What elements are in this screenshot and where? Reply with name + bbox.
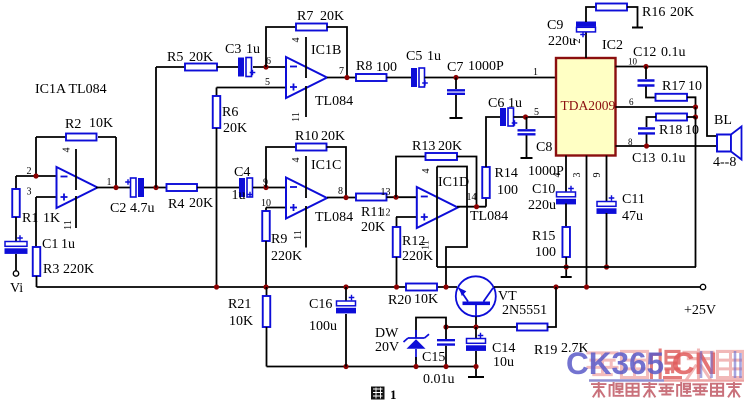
resistor R14	[482, 167, 490, 198]
wire R21 bottom	[266, 327, 268, 367]
wire IC1C pin10 input	[266, 207, 286, 209]
zener diode DW	[404, 330, 430, 360]
wire IC1D output	[457, 206, 486, 208]
wire R21 top	[266, 287, 268, 296]
wire R15 bottom	[565, 257, 567, 276]
svg-text:10: 10	[261, 198, 271, 209]
resistor R4	[167, 184, 198, 191]
svg-text:TL084: TL084	[315, 210, 353, 225]
junction R15 node	[564, 264, 569, 269]
wire C16 bottom	[345, 314, 347, 367]
svg-text:1u: 1u	[61, 237, 75, 252]
junction IC1C output node	[343, 195, 348, 200]
wire C2 to R4	[144, 187, 167, 189]
junction C16 ground	[343, 364, 348, 369]
wire R13 feedback right	[457, 157, 477, 207]
wire C15 top	[445, 327, 447, 339]
wire to R3	[35, 197, 37, 247]
svg-text:2: 2	[27, 166, 32, 177]
junction C15 ground	[443, 364, 448, 369]
op-amp U1 IC1C	[286, 178, 327, 219]
svg-text:IC1B: IC1B	[311, 43, 341, 58]
capacitor C1	[5, 242, 27, 247]
resistor R16	[596, 4, 627, 11]
svg-text:3: 3	[572, 173, 583, 178]
svg-text:20K: 20K	[189, 196, 213, 211]
wire R4 to C4	[197, 187, 239, 189]
svg-text:9: 9	[592, 173, 603, 178]
svg-text:4: 4	[291, 38, 302, 43]
svg-text:20K: 20K	[670, 5, 694, 20]
svg-text:11: 11	[421, 240, 432, 250]
svg-text:R2: R2	[65, 117, 81, 132]
op-amp U1 IC1D	[417, 187, 458, 228]
wire IC1B pin11 stub	[305, 86, 307, 117]
svg-text:8: 8	[338, 186, 343, 197]
svg-text:4: 4	[421, 169, 432, 174]
wire TDA pin9 line	[606, 156, 608, 202]
svg-text:C12: C12	[633, 45, 656, 60]
wire R9 bottom to rail	[265, 241, 267, 287]
wire pin3 input	[36, 196, 57, 198]
svg-text:11: 11	[63, 220, 74, 230]
junction pin13 node	[393, 195, 398, 200]
plus C14	[478, 333, 484, 339]
capacitor C3	[238, 58, 244, 77]
wire R10 feedback right	[327, 147, 347, 198]
svg-text:8: 8	[628, 137, 633, 147]
plus C9	[580, 32, 586, 38]
svg-text:20V: 20V	[375, 340, 399, 355]
wire C16 top	[345, 287, 347, 301]
svg-text:TL084: TL084	[69, 82, 107, 97]
wire C12 top	[645, 67, 647, 80]
svg-text:IC1C: IC1C	[311, 158, 341, 173]
resistor R21	[263, 296, 271, 327]
svg-text:1u: 1u	[427, 49, 441, 64]
wire IC1B pin5 input	[217, 87, 287, 89]
junction pin9 node	[263, 185, 268, 190]
svg-text:BL: BL	[714, 113, 732, 128]
svg-text:20K: 20K	[438, 139, 462, 154]
wire C9 to R16	[586, 7, 596, 22]
junction C7 node	[453, 75, 458, 80]
wire R10 feedback left	[266, 147, 296, 188]
wire zener jog	[416, 318, 446, 339]
svg-text:R10: R10	[295, 129, 318, 144]
svg-text:6: 6	[629, 97, 634, 107]
svg-text:1: 1	[107, 177, 112, 188]
capacitor C14	[467, 339, 486, 344]
svg-text:11: 11	[291, 112, 302, 122]
wire C14 bottom	[475, 351, 477, 376]
svg-text:1000P: 1000P	[468, 59, 504, 74]
plus C3	[250, 70, 256, 76]
watermark underline	[589, 379, 664, 382]
wire C8 bottom	[526, 136, 528, 158]
svg-text:47u: 47u	[622, 209, 643, 224]
wire R2 left	[36, 136, 66, 138]
svg-text:20K: 20K	[321, 129, 345, 144]
wire R3 bottom	[36, 276, 38, 287]
wire C15 bottom	[445, 346, 447, 367]
wire R2 right	[98, 136, 116, 138]
resistor R3	[33, 247, 41, 276]
wire IC1C output	[327, 197, 356, 199]
svg-text:10K: 10K	[89, 116, 113, 131]
wire R12 bottom to rail	[396, 257, 398, 287]
plus C5	[422, 80, 428, 86]
svg-text:C4: C4	[234, 165, 250, 180]
wire pin2 input	[16, 175, 57, 177]
junction R12 rail	[394, 284, 399, 289]
wire R7 feedback left	[266, 27, 296, 67]
svg-text:20K: 20K	[189, 50, 213, 65]
wire TDA pin3 line	[586, 156, 588, 288]
junction C14 ground	[473, 364, 478, 369]
resistor R13	[426, 153, 458, 160]
svg-text:0.1u: 0.1u	[661, 151, 686, 166]
junction R9/R21 rail	[263, 284, 268, 289]
resistor R18	[656, 114, 687, 121]
watermark glyph 4	[684, 350, 713, 379]
plus C4	[247, 192, 253, 198]
junction pin5 node	[523, 114, 528, 119]
watermark glyph 2	[621, 351, 647, 377]
svg-text:220K: 220K	[63, 262, 94, 277]
wire TDA pin2 to C9	[585, 31, 587, 58]
svg-text:VT: VT	[498, 289, 517, 304]
wire R17/R18 link	[695, 107, 697, 117]
terminator R15	[561, 276, 572, 278]
capacitor C8	[518, 130, 536, 134]
svg-text:12: 12	[381, 208, 391, 219]
resistor R7	[296, 24, 327, 31]
resistor R5	[185, 64, 217, 71]
capacitor C11	[597, 202, 616, 207]
svg-text:R3: R3	[43, 262, 59, 277]
wire C1 to Vi	[15, 254, 17, 271]
junction R6 rail	[214, 284, 219, 289]
plus C1	[17, 235, 23, 241]
svg-text:R21: R21	[228, 297, 251, 312]
wire R13 feedback left	[396, 157, 426, 198]
wire C10 to R15	[565, 204, 567, 228]
wire R17 right	[687, 97, 696, 107]
terminal +25V	[700, 284, 705, 289]
svg-text:R5: R5	[167, 50, 183, 65]
wire R12 top	[396, 217, 398, 227]
svg-text:3: 3	[27, 187, 32, 198]
svg-text:C7: C7	[447, 60, 463, 75]
terminator R16	[632, 27, 643, 29]
svg-text:4--8: 4--8	[713, 155, 736, 170]
wire bootstrap net	[437, 266, 696, 268]
wire ground bus	[267, 366, 477, 368]
svg-text:10K: 10K	[229, 314, 253, 329]
resistor R10	[296, 144, 327, 151]
svg-text:TDA2009: TDA2009	[561, 98, 616, 113]
wire C8 top	[526, 117, 528, 129]
svg-text:1K: 1K	[43, 211, 60, 226]
ground C14	[468, 376, 484, 378]
resistor R2	[66, 134, 97, 141]
svg-text:1: 1	[390, 387, 397, 400]
wire IC1B pin4 stub	[305, 37, 307, 78]
plus C10	[568, 186, 574, 192]
capacitor C16	[337, 301, 356, 306]
junction IC1A output node	[113, 185, 118, 190]
svg-text:C14: C14	[492, 341, 515, 356]
wire C7 top	[455, 78, 457, 90]
svg-text:CK365: CK365	[566, 345, 664, 381]
op-amp U1 IC1A	[57, 167, 98, 208]
svg-text:4: 4	[552, 173, 563, 178]
svg-text:IC1D: IC1D	[438, 175, 469, 190]
resistor R11	[356, 194, 387, 201]
wire TDA pin10 output	[616, 66, 708, 68]
svg-text:100: 100	[376, 60, 397, 75]
svg-text:4.7u: 4.7u	[130, 201, 155, 216]
svg-text:220u: 220u	[548, 34, 576, 49]
svg-text:C3: C3	[225, 42, 241, 57]
resistor R6	[213, 96, 221, 128]
svg-text:220K: 220K	[402, 249, 433, 264]
svg-text:IC1A: IC1A	[35, 82, 67, 97]
svg-text:R9: R9	[271, 232, 287, 247]
junction R18 node	[693, 114, 698, 119]
resistor R12	[393, 227, 401, 257]
wire bootstrap vertical	[695, 117, 697, 267]
svg-text:.CN: .CN	[663, 345, 717, 381]
wire zener anode	[415, 357, 417, 367]
input terminal Vi	[13, 271, 18, 276]
capacitor C5	[411, 68, 417, 87]
svg-text:C6: C6	[488, 96, 504, 111]
svg-text:5: 5	[534, 107, 539, 118]
wire C14 top	[475, 327, 477, 339]
wire C12 to R17	[646, 87, 656, 98]
watermark glyph 3	[651, 350, 680, 378]
svg-text:10K: 10K	[414, 292, 438, 307]
wire base node	[446, 326, 517, 328]
junction R20/IC1D rail	[443, 284, 448, 289]
resistor R1	[12, 189, 20, 217]
svg-text:C15: C15	[422, 350, 445, 365]
wire IC1C pin4 stub	[305, 156, 307, 198]
junction IC1D output node	[474, 204, 479, 209]
junction C16 rail	[343, 284, 348, 289]
svg-text:7: 7	[339, 66, 344, 77]
watermark glyph 1	[588, 353, 617, 375]
svg-text:4: 4	[62, 148, 73, 153]
svg-text:220K: 220K	[271, 249, 302, 264]
junction TDA pin3 rail	[584, 284, 589, 289]
svg-text:R7: R7	[297, 9, 313, 24]
svg-text:1: 1	[533, 67, 538, 78]
capacitor C2	[131, 178, 137, 197]
svg-text:C16: C16	[309, 297, 332, 312]
wire C13 bottom	[646, 135, 648, 147]
capacitor C9	[576, 22, 596, 27]
wire to speaker top	[707, 67, 717, 137]
wire R18 to C13	[647, 117, 657, 127]
wire R7 feedback right	[327, 27, 347, 78]
svg-text:14: 14	[467, 192, 477, 203]
svg-text:C5: C5	[406, 49, 422, 64]
svg-text:10u: 10u	[493, 355, 514, 370]
watermark tagline 射频和天线设计专家	[592, 383, 606, 397]
wire R14 bottom	[485, 198, 487, 207]
junction pin10 node	[643, 64, 648, 69]
junction pin6 node	[263, 64, 268, 69]
junction pin8 node	[644, 143, 649, 148]
junction C11 node	[604, 264, 609, 269]
wire R1 top	[15, 176, 17, 189]
wire R2 right vertical	[115, 137, 117, 188]
junction VT base node	[473, 324, 478, 329]
svg-text:+25V: +25V	[684, 303, 716, 318]
wire R6 bottom to rail	[216, 128, 218, 287]
svg-text:R18: R18	[659, 123, 682, 138]
wire C3 to IC1B pin6	[253, 66, 286, 68]
svg-text:IC2: IC2	[602, 38, 623, 53]
junction R17/pin6 node	[693, 104, 698, 109]
wire R8 to C5	[387, 77, 412, 79]
resistor R19	[517, 324, 548, 331]
svg-text:R6: R6	[222, 105, 238, 120]
wire C11 bottom	[606, 213, 608, 267]
op-amp U1 IC1B	[286, 57, 327, 98]
svg-text:1u: 1u	[508, 96, 522, 111]
svg-text:13: 13	[381, 187, 391, 198]
wire VT base lead	[475, 317, 477, 328]
junction R19 rail	[553, 284, 558, 289]
terminator C7	[450, 117, 463, 119]
svg-text:C11: C11	[622, 192, 645, 207]
wire IC1A output	[96, 187, 131, 189]
resistor R9	[262, 211, 270, 241]
wire R11 to IC1D pin13	[387, 196, 417, 198]
wire R18 right	[687, 116, 696, 118]
wire TDA pin4 line	[565, 156, 567, 193]
wire IC1C pin11 stub	[305, 206, 307, 248]
svg-text:5: 5	[265, 77, 270, 88]
svg-text:C2: C2	[110, 201, 126, 216]
terminator C8	[521, 157, 533, 159]
svg-text:C1: C1	[42, 237, 58, 252]
wire R9 top	[265, 208, 267, 212]
svg-text:DW: DW	[375, 326, 399, 341]
svg-text:C10: C10	[532, 182, 555, 197]
svg-text:R15: R15	[532, 229, 555, 244]
wire C5 to TDA pin1	[425, 77, 557, 79]
svg-text:100: 100	[497, 183, 518, 198]
wire R16 right	[627, 7, 638, 27]
svg-text:R20: R20	[388, 293, 411, 308]
wire IC1B output	[327, 77, 356, 79]
capacitor C6	[500, 108, 506, 126]
transistor VT 2N5551	[456, 276, 496, 316]
svg-text:4: 4	[291, 158, 302, 163]
wire IC1A pin11 stub	[75, 196, 77, 228]
capacitor C7	[447, 90, 465, 94]
resistor R20	[406, 284, 437, 291]
svg-text:100u: 100u	[309, 319, 337, 334]
wire R2 left vertical	[35, 137, 37, 176]
wire R14 to C6	[486, 117, 500, 167]
wire R1 to C1	[15, 217, 17, 241]
watermark blue strokes	[701, 351, 741, 378]
capacitor C15	[437, 340, 455, 344]
junction IC1B output node	[344, 75, 349, 80]
IC U2 TDA2009	[556, 58, 616, 156]
capacitor C13	[638, 128, 655, 133]
speaker BL	[717, 135, 731, 152]
svg-text:0.01u: 0.01u	[423, 372, 455, 387]
svg-text:100: 100	[535, 245, 556, 260]
junction C2/R4/R5 node	[153, 185, 158, 190]
svg-text:R13: R13	[412, 139, 435, 154]
svg-text:220u: 220u	[528, 198, 556, 213]
resistor R15	[562, 227, 570, 257]
wire IC1D pin12 input	[396, 216, 417, 218]
caption 图 1	[371, 387, 385, 400]
svg-text:10: 10	[688, 79, 702, 94]
svg-text:0.1u: 0.1u	[661, 45, 686, 60]
svg-text:R19: R19	[534, 343, 557, 358]
svg-text:TL084: TL084	[470, 209, 508, 224]
wire +25V rail	[494, 286, 701, 288]
wire C6 to TDA pin5	[514, 116, 557, 118]
svg-text:1u: 1u	[232, 188, 246, 203]
wire IC1A pin4 stub	[75, 149, 77, 190]
svg-text:C13: C13	[632, 151, 655, 166]
svg-text:R4: R4	[168, 197, 184, 212]
svg-text:R8: R8	[356, 59, 372, 74]
svg-text:C9: C9	[547, 18, 563, 33]
svg-text:R14: R14	[495, 166, 518, 181]
wire TDA pin6	[616, 106, 696, 108]
wire C7 bottom	[455, 95, 457, 117]
svg-text:11: 11	[293, 230, 304, 240]
junction C15/base node	[443, 324, 448, 329]
junction zener ground	[413, 364, 418, 369]
svg-text:C8: C8	[536, 140, 552, 155]
capacitor C4	[239, 178, 245, 197]
wire TDA pin8 output	[616, 145, 718, 147]
svg-text:1u: 1u	[246, 42, 260, 57]
resistor R8	[356, 74, 387, 81]
svg-text:20K: 20K	[223, 121, 247, 136]
wire R5 to C3	[217, 66, 238, 68]
capacitor C12	[638, 81, 655, 86]
plus C6	[512, 120, 518, 126]
svg-text:10: 10	[685, 123, 699, 138]
wire IC1D pin4/pin11 line	[436, 167, 438, 268]
wire IC1D power outline	[437, 167, 467, 288]
wire C4 to IC1C pin9	[253, 187, 286, 189]
wire bias rail	[37, 286, 458, 288]
wire to R5	[156, 66, 185, 68]
capacitor C10	[557, 192, 576, 197]
svg-text:Vi: Vi	[10, 281, 23, 296]
svg-text:20K: 20K	[361, 220, 385, 235]
svg-text:20K: 20K	[320, 9, 344, 24]
junction pin2 node	[33, 173, 38, 178]
svg-text:TL084: TL084	[315, 94, 353, 109]
svg-text:R16: R16	[642, 5, 665, 20]
